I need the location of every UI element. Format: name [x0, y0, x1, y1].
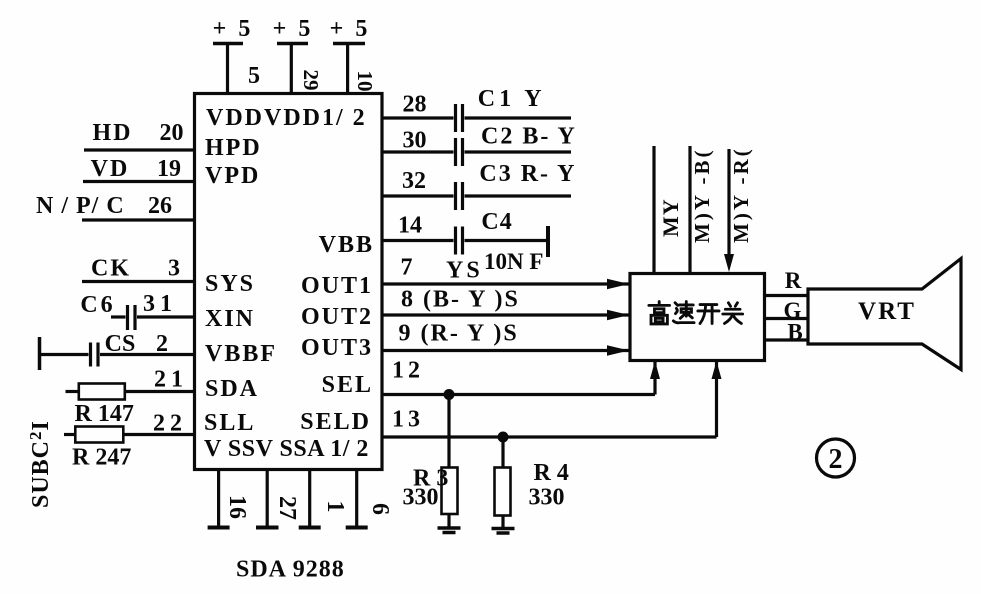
- wire N/P/C pin 26: [82, 218, 195, 221]
- arrow into switch (R-Y)S: [607, 345, 629, 355]
- wire pin 1: [308, 470, 311, 528]
- wire C1 output Y: [465, 116, 572, 119]
- capacitor C4: [456, 227, 463, 255]
- ground (C4): [546, 226, 550, 257]
- svg-text:7: 7: [401, 255, 413, 281]
- svg-text:M)Y -B(: M)Y -B(: [690, 148, 714, 243]
- svg-text:21: 21: [154, 367, 188, 393]
- svg-text:C3 R- Y: C3 R- Y: [479, 161, 576, 187]
- wire YM input: [652, 146, 655, 273]
- capacitor C6: [111, 305, 135, 330]
- svg-text:OUT3: OUT3: [301, 335, 373, 361]
- arrow into switch (B-Y)S: [607, 310, 629, 320]
- arrow into switch (YS): [607, 279, 629, 289]
- svg-text:HD: HD: [93, 120, 133, 146]
- wire pin 28: [382, 116, 454, 119]
- svg-text:13: 13: [392, 407, 424, 433]
- svg-text:+ 5: + 5: [273, 16, 314, 42]
- wire OUT1 pin 7: [382, 282, 629, 285]
- svg-text:+ 5: + 5: [213, 16, 254, 42]
- wire R3 top lead: [447, 395, 450, 468]
- wire stem pin 29: [290, 44, 293, 94]
- svg-text:8 (B- Y )S: 8 (B- Y )S: [401, 287, 520, 313]
- svg-text:20: 20: [160, 120, 184, 146]
- wire C6 to pin 31: [137, 315, 195, 318]
- wire pin 14: [382, 239, 454, 242]
- resistor R4: [495, 468, 511, 516]
- ground (R3): [438, 528, 461, 533]
- capacitor C1: [456, 104, 463, 132]
- wire VD pin 19: [83, 180, 195, 183]
- svg-text:MY: MY: [658, 198, 683, 237]
- wire CK pin 3: [82, 280, 195, 283]
- arrow SELD into switch bottom: [712, 361, 722, 379]
- svg-text:SLL: SLL: [204, 410, 255, 436]
- capacitor C3: [456, 182, 463, 210]
- ground pin 16: [208, 526, 230, 530]
- wire HD pin 20: [84, 148, 195, 151]
- svg-text:SEL: SEL: [322, 372, 373, 398]
- svg-text:SYS: SYS: [205, 271, 255, 297]
- svg-text:VDDVDD1/ 2: VDDVDD1/ 2: [206, 105, 367, 131]
- svg-text:30: 30: [403, 128, 427, 154]
- figure number 2 (circled): [817, 439, 855, 477]
- svg-text:27: 27: [274, 496, 300, 520]
- ground pin 6: [346, 526, 368, 530]
- svg-text:OUT1: OUT1: [301, 273, 373, 299]
- IC U1 SDA9288 body: [195, 94, 383, 470]
- wire OUT2 pin 8: [382, 313, 629, 316]
- +5V supply rail 3: [330, 16, 371, 44]
- wire CS to pin 2: [100, 353, 195, 356]
- wire ground to CS cap: [40, 353, 89, 356]
- svg-text:SELD: SELD: [300, 409, 371, 435]
- switch block U2 (high-speed switch): [630, 274, 765, 361]
- svg-text:26: 26: [148, 193, 172, 219]
- svg-text:6: 6: [367, 503, 393, 515]
- svg-text:1: 1: [322, 501, 348, 513]
- wire pin 32: [382, 194, 454, 197]
- svg-text:19: 19: [157, 156, 181, 182]
- svg-text:3: 3: [168, 256, 180, 282]
- wire C2 output B-Y: [465, 150, 572, 153]
- wire C3 output R-Y: [465, 194, 572, 197]
- wire pin 30: [382, 150, 454, 153]
- svg-text:R 147: R 147: [75, 401, 134, 427]
- arrow (R-Y)M into switch top: [724, 254, 734, 272]
- wire R3 bottom lead: [447, 514, 450, 527]
- svg-text:C4: C4: [481, 209, 512, 235]
- svg-text:SUBC2I: SUBC2I: [26, 420, 54, 508]
- wire SEL pin 12: [382, 393, 655, 396]
- svg-text:330: 330: [529, 485, 565, 511]
- svg-text:12: 12: [392, 358, 424, 384]
- svg-text:HPD: HPD: [205, 135, 262, 161]
- svg-text:OUT2: OUT2: [301, 304, 373, 330]
- ground (R4): [492, 529, 515, 534]
- CRT VRT outline: [808, 259, 961, 370]
- wire R4 top lead: [501, 437, 504, 468]
- wire SELD up to switch: [715, 362, 718, 438]
- svg-text:VBBF: VBBF: [205, 341, 277, 367]
- svg-text:VRT: VRT: [858, 298, 916, 325]
- wire (B-Y)M input: [688, 146, 691, 273]
- svg-text:32: 32: [402, 168, 426, 194]
- wire G output: [765, 317, 808, 320]
- svg-text:SDA 9288: SDA 9288: [236, 557, 345, 583]
- capacitor C2: [456, 138, 463, 166]
- ground pin 1: [299, 526, 321, 530]
- svg-text:N / P/ C: N / P/ C: [36, 193, 125, 219]
- svg-text:R 247: R 247: [72, 445, 131, 471]
- svg-text:YS: YS: [446, 258, 483, 284]
- wire OUT3 pin 9: [382, 349, 629, 352]
- capacitor CS: [91, 343, 99, 367]
- svg-text:SDA: SDA: [205, 376, 259, 402]
- resistor R247: [64, 427, 123, 443]
- svg-text:5: 5: [248, 63, 260, 89]
- svg-text:B: B: [787, 320, 802, 345]
- resistor R147: [66, 384, 125, 400]
- svg-text:10: 10: [353, 71, 377, 92]
- wire (R-Y)M input: [727, 149, 730, 255]
- wire R247 to pin 22: [124, 433, 195, 436]
- svg-text:+ 5: + 5: [330, 16, 371, 42]
- svg-text:22: 22: [153, 411, 187, 437]
- switch block label 高速开关: [649, 302, 743, 324]
- svg-text:9 (R- Y )S: 9 (R- Y )S: [399, 321, 519, 347]
- svg-text:CS: CS: [105, 331, 136, 357]
- +5V supply rail 1: [213, 16, 254, 44]
- wire pin 6: [355, 470, 358, 528]
- wire SEL up to switch: [653, 362, 656, 395]
- svg-text:10N F: 10N F: [484, 249, 543, 274]
- junction node SELD/R4: [498, 432, 509, 443]
- svg-text:29: 29: [299, 70, 323, 91]
- svg-text:31: 31: [143, 291, 177, 317]
- svg-text:28: 28: [403, 92, 427, 118]
- svg-text:VPD: VPD: [205, 163, 260, 189]
- svg-text:V SSV SSA 1/ 2: V SSV SSA 1/ 2: [204, 436, 369, 462]
- svg-text:C2 B- Y: C2 B- Y: [481, 124, 577, 150]
- wire B output: [765, 338, 808, 341]
- arrow SEL into switch bottom: [650, 361, 660, 379]
- svg-text:VBB: VBB: [319, 232, 374, 258]
- svg-text:C6: C6: [80, 292, 115, 318]
- svg-text:14: 14: [398, 213, 422, 239]
- svg-text:R 4: R 4: [534, 460, 569, 486]
- junction node SEL/R3: [444, 389, 455, 400]
- svg-text:XIN: XIN: [205, 306, 255, 332]
- ground (CS net): [38, 337, 42, 370]
- wire SELD pin 13: [382, 435, 717, 438]
- wire R147 to pin 21: [125, 390, 195, 393]
- wire pin 16: [217, 470, 220, 528]
- svg-text:2: 2: [829, 444, 843, 475]
- resistor R3: [442, 468, 458, 515]
- wire pin 27: [266, 470, 269, 528]
- svg-text:VD: VD: [91, 156, 130, 182]
- +5V supply rail 2: [273, 16, 314, 44]
- svg-text:CK: CK: [91, 256, 131, 282]
- wire R output: [765, 294, 809, 297]
- wire stem pin 10: [346, 44, 349, 94]
- svg-text:330: 330: [403, 485, 439, 511]
- svg-text:2: 2: [156, 331, 168, 357]
- ground pin 27: [256, 526, 279, 530]
- svg-text:M)Y -R(: M)Y -R(: [729, 146, 753, 243]
- svg-text:R: R: [785, 268, 802, 293]
- svg-text:16: 16: [224, 495, 250, 519]
- wire stem pin 5: [226, 44, 229, 94]
- wire R4 bottom lead: [501, 516, 504, 529]
- wire C4 to ground: [465, 239, 547, 242]
- svg-text:C1 Y: C1 Y: [478, 86, 546, 112]
